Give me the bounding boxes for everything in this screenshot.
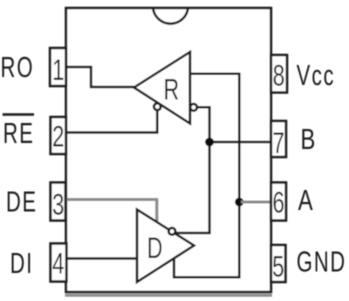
pin 5 box [271, 245, 286, 282]
svg-text:RE: RE [3, 119, 34, 150]
body bottom shadow [65, 294, 272, 297]
wire DE net [66, 200, 157, 223]
svg-text:7: 7 [272, 125, 284, 159]
svg-text:R: R [164, 72, 180, 106]
pin-1 orientation notch [153, 8, 188, 24]
svg-text:3: 3 [52, 187, 64, 221]
svg-text:6: 6 [272, 185, 284, 219]
wire net B from bubble [197, 107, 210, 142]
svg-text:GND: GND [297, 247, 347, 278]
wire net A [174, 74, 239, 277]
svg-text:RO: RO [1, 53, 35, 84]
wire net B to driver bubble [175, 142, 210, 233]
inverting output bubble on driver D [169, 228, 176, 235]
pin 6 box [271, 183, 286, 221]
wire DI net [66, 257, 137, 260]
op-amp receiver R [134, 52, 190, 124]
wire net A to pin 6 [241, 201, 271, 204]
pin 2 box [51, 117, 67, 154]
svg-text:DI: DI [10, 249, 33, 280]
pin 4 box [51, 244, 67, 282]
pin 1 box [50, 48, 66, 86]
svg-text:DE: DE [6, 187, 37, 218]
junction node A [235, 198, 244, 207]
enable bubble on receiver R [154, 103, 161, 110]
svg-text:Vcc: Vcc [297, 61, 336, 92]
pin 8 box [271, 55, 287, 93]
pin 7 box [271, 121, 286, 157]
svg-text:4: 4 [52, 246, 64, 280]
svg-text:1: 1 [52, 52, 64, 86]
svg-text:D: D [147, 230, 163, 264]
IC body U1 [66, 8, 271, 292]
op-amp driver D [137, 210, 194, 283]
junction node B [205, 138, 214, 147]
svg-text:5: 5 [272, 249, 284, 283]
wire RE net [66, 110, 157, 133]
svg-text:B: B [301, 124, 316, 155]
svg-text:A: A [298, 185, 313, 216]
svg-text:8: 8 [273, 58, 285, 92]
pin 3 box [51, 183, 66, 221]
wire net B to pin 7 [210, 141, 272, 144]
overline of RE label [3, 113, 35, 115]
svg-text:2: 2 [52, 119, 64, 153]
wire RO net [66, 67, 134, 87]
inverting input bubble on receiver R [190, 104, 197, 111]
